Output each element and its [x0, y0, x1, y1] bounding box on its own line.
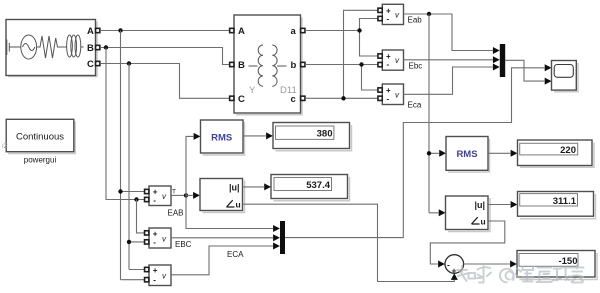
wire EAB down to mux2 input1	[186, 195, 273, 228]
display 220	[518, 140, 595, 167]
wire sum to display -150	[464, 263, 510, 265]
transformer port b	[301, 62, 305, 66]
wire ECA output to mux2 input3	[171, 246, 273, 275]
svg-text:i2: i2	[2, 141, 8, 150]
svg-text:220: 220	[560, 145, 576, 156]
wire phase C: source C to transformer C	[100, 64, 230, 99]
display 537.4	[271, 175, 350, 201]
wire RMS1 to display 380	[243, 135, 266, 137]
svg-text:-: -	[387, 15, 390, 24]
wire EAB to RMS1	[186, 136, 193, 195]
wire mux2 output up to scope input1	[285, 68, 544, 238]
node C junction	[127, 61, 131, 65]
svg-text:ECA: ECA	[227, 250, 244, 259]
wire abs1 to display 537.4	[243, 186, 264, 188]
svg-text:u: u	[236, 200, 241, 210]
mux2	[280, 221, 285, 254]
svg-text:|u|: |u|	[229, 183, 240, 193]
svg-text:+: +	[452, 266, 457, 276]
svg-text:-150: -150	[558, 256, 577, 267]
transformer port c	[301, 96, 305, 100]
svg-text:A: A	[87, 26, 94, 37]
svg-text:Eca: Eca	[408, 101, 422, 110]
wire EAB output	[171, 194, 186, 196]
wire Eab long drop to RMS2 and abs2	[429, 14, 439, 213]
wire abs2 to display 311.1	[488, 204, 510, 206]
node a junction	[357, 28, 361, 32]
source port B	[96, 45, 100, 49]
svg-text:D11: D11	[280, 85, 297, 96]
node A junction	[118, 28, 122, 32]
wire c to Eca minus and Eab plus	[305, 10, 378, 98]
svg-text:b: b	[291, 60, 297, 71]
svg-text:EBC: EBC	[175, 240, 192, 249]
node Eab output junction	[427, 12, 431, 16]
svg-text:B: B	[87, 43, 94, 54]
svg-text:C: C	[238, 94, 245, 105]
wire Eca output to mux1 input3	[404, 67, 493, 94]
wire Ebc output to mux1 input2	[404, 59, 493, 61]
wire phase B: source B to transformer B	[100, 48, 230, 65]
svg-text:|u|: |u|	[474, 200, 485, 210]
transformer block Y-D11	[234, 15, 302, 115]
svg-text:T: T	[172, 189, 176, 196]
wire Eab output to mux1 input1 and down-tap	[404, 14, 493, 51]
watermark zhihu	[457, 266, 584, 283]
wire EAB to abs1	[186, 194, 193, 196]
svg-text:-: -	[447, 259, 450, 269]
svg-text:-: -	[153, 275, 156, 284]
wire RMS2 to display 220	[488, 152, 510, 154]
node B-EAB junction	[134, 197, 138, 201]
wire C drop to EBC minus and ECA plus	[129, 64, 144, 270]
wire b to Ebc minus and Eca plus	[305, 65, 378, 91]
svg-text:-: -	[387, 94, 390, 103]
RMS1 block	[201, 120, 245, 155]
svg-text:B: B	[238, 60, 245, 71]
scope block	[552, 61, 579, 92]
voltage measurement ECA	[149, 250, 244, 286]
transformer port C	[230, 96, 234, 100]
display 380	[273, 123, 352, 151]
svg-text:A: A	[238, 26, 245, 37]
wire angle2 to sum left input	[430, 221, 505, 264]
voltage measurement EBC	[149, 228, 192, 249]
node b junction	[359, 62, 363, 66]
transformer port a	[301, 28, 305, 32]
display 311.1	[518, 192, 596, 219]
wire EBC output to mux2 input2	[171, 237, 273, 239]
three-phase source block	[6, 20, 97, 77]
node A-EAB junction	[118, 189, 122, 193]
wire B branch to EBC plus	[137, 200, 145, 233]
svg-text:u: u	[481, 217, 486, 227]
svg-text:-: -	[387, 60, 390, 69]
transformer port A	[230, 28, 234, 32]
svg-text:C: C	[87, 59, 94, 70]
node c junction	[341, 96, 345, 100]
RMS2 block	[446, 137, 490, 173]
node Eab-RMS2 junction	[427, 151, 431, 155]
wire B drop to EAB minus	[106, 48, 144, 200]
sum block	[445, 255, 464, 276]
svg-text:537.4: 537.4	[306, 180, 330, 191]
svg-text:a: a	[291, 26, 297, 37]
svg-text:powergui: powergui	[24, 156, 57, 165]
source port C	[96, 61, 100, 65]
svg-text:RMS: RMS	[211, 132, 232, 143]
voltage measurement Eab	[382, 4, 422, 24]
node C-EBC junction	[127, 240, 131, 244]
node EAB output junction	[184, 193, 188, 197]
svg-text:-: -	[153, 196, 156, 205]
wire mux1 output to scope input2	[505, 60, 544, 81]
wire a to Eab minus and Ebc plus	[305, 19, 378, 57]
svg-text:380: 380	[317, 129, 333, 140]
svg-text:RMS: RMS	[456, 149, 477, 160]
wire phase A: source A to transformer A	[100, 30, 230, 32]
svg-text:Eab: Eab	[408, 16, 423, 25]
voltage measurement EAB	[149, 186, 184, 218]
svg-text:-: -	[153, 238, 156, 247]
transformer port B	[230, 62, 234, 66]
svg-text:+: +	[153, 266, 158, 275]
voltage measurement Ebc	[382, 50, 422, 71]
voltage measurement Eca	[382, 84, 422, 110]
wire A drop to EAB plus and ECA minus	[121, 31, 145, 280]
abs-angle block 1	[200, 179, 245, 213]
svg-text:Ebc: Ebc	[409, 62, 423, 71]
svg-text:EAB: EAB	[168, 209, 184, 218]
wire angle1 to sum bottom input	[243, 204, 455, 281]
abs-angle block 2	[446, 196, 491, 232]
node B junction	[104, 45, 108, 49]
powergui block	[2, 119, 75, 164]
display -150	[517, 251, 597, 280]
mux1	[500, 44, 505, 77]
svg-text:Y: Y	[249, 85, 256, 96]
source port A	[96, 28, 100, 32]
svg-text:Continuous: Continuous	[16, 132, 64, 143]
svg-text:311.1: 311.1	[553, 196, 577, 207]
